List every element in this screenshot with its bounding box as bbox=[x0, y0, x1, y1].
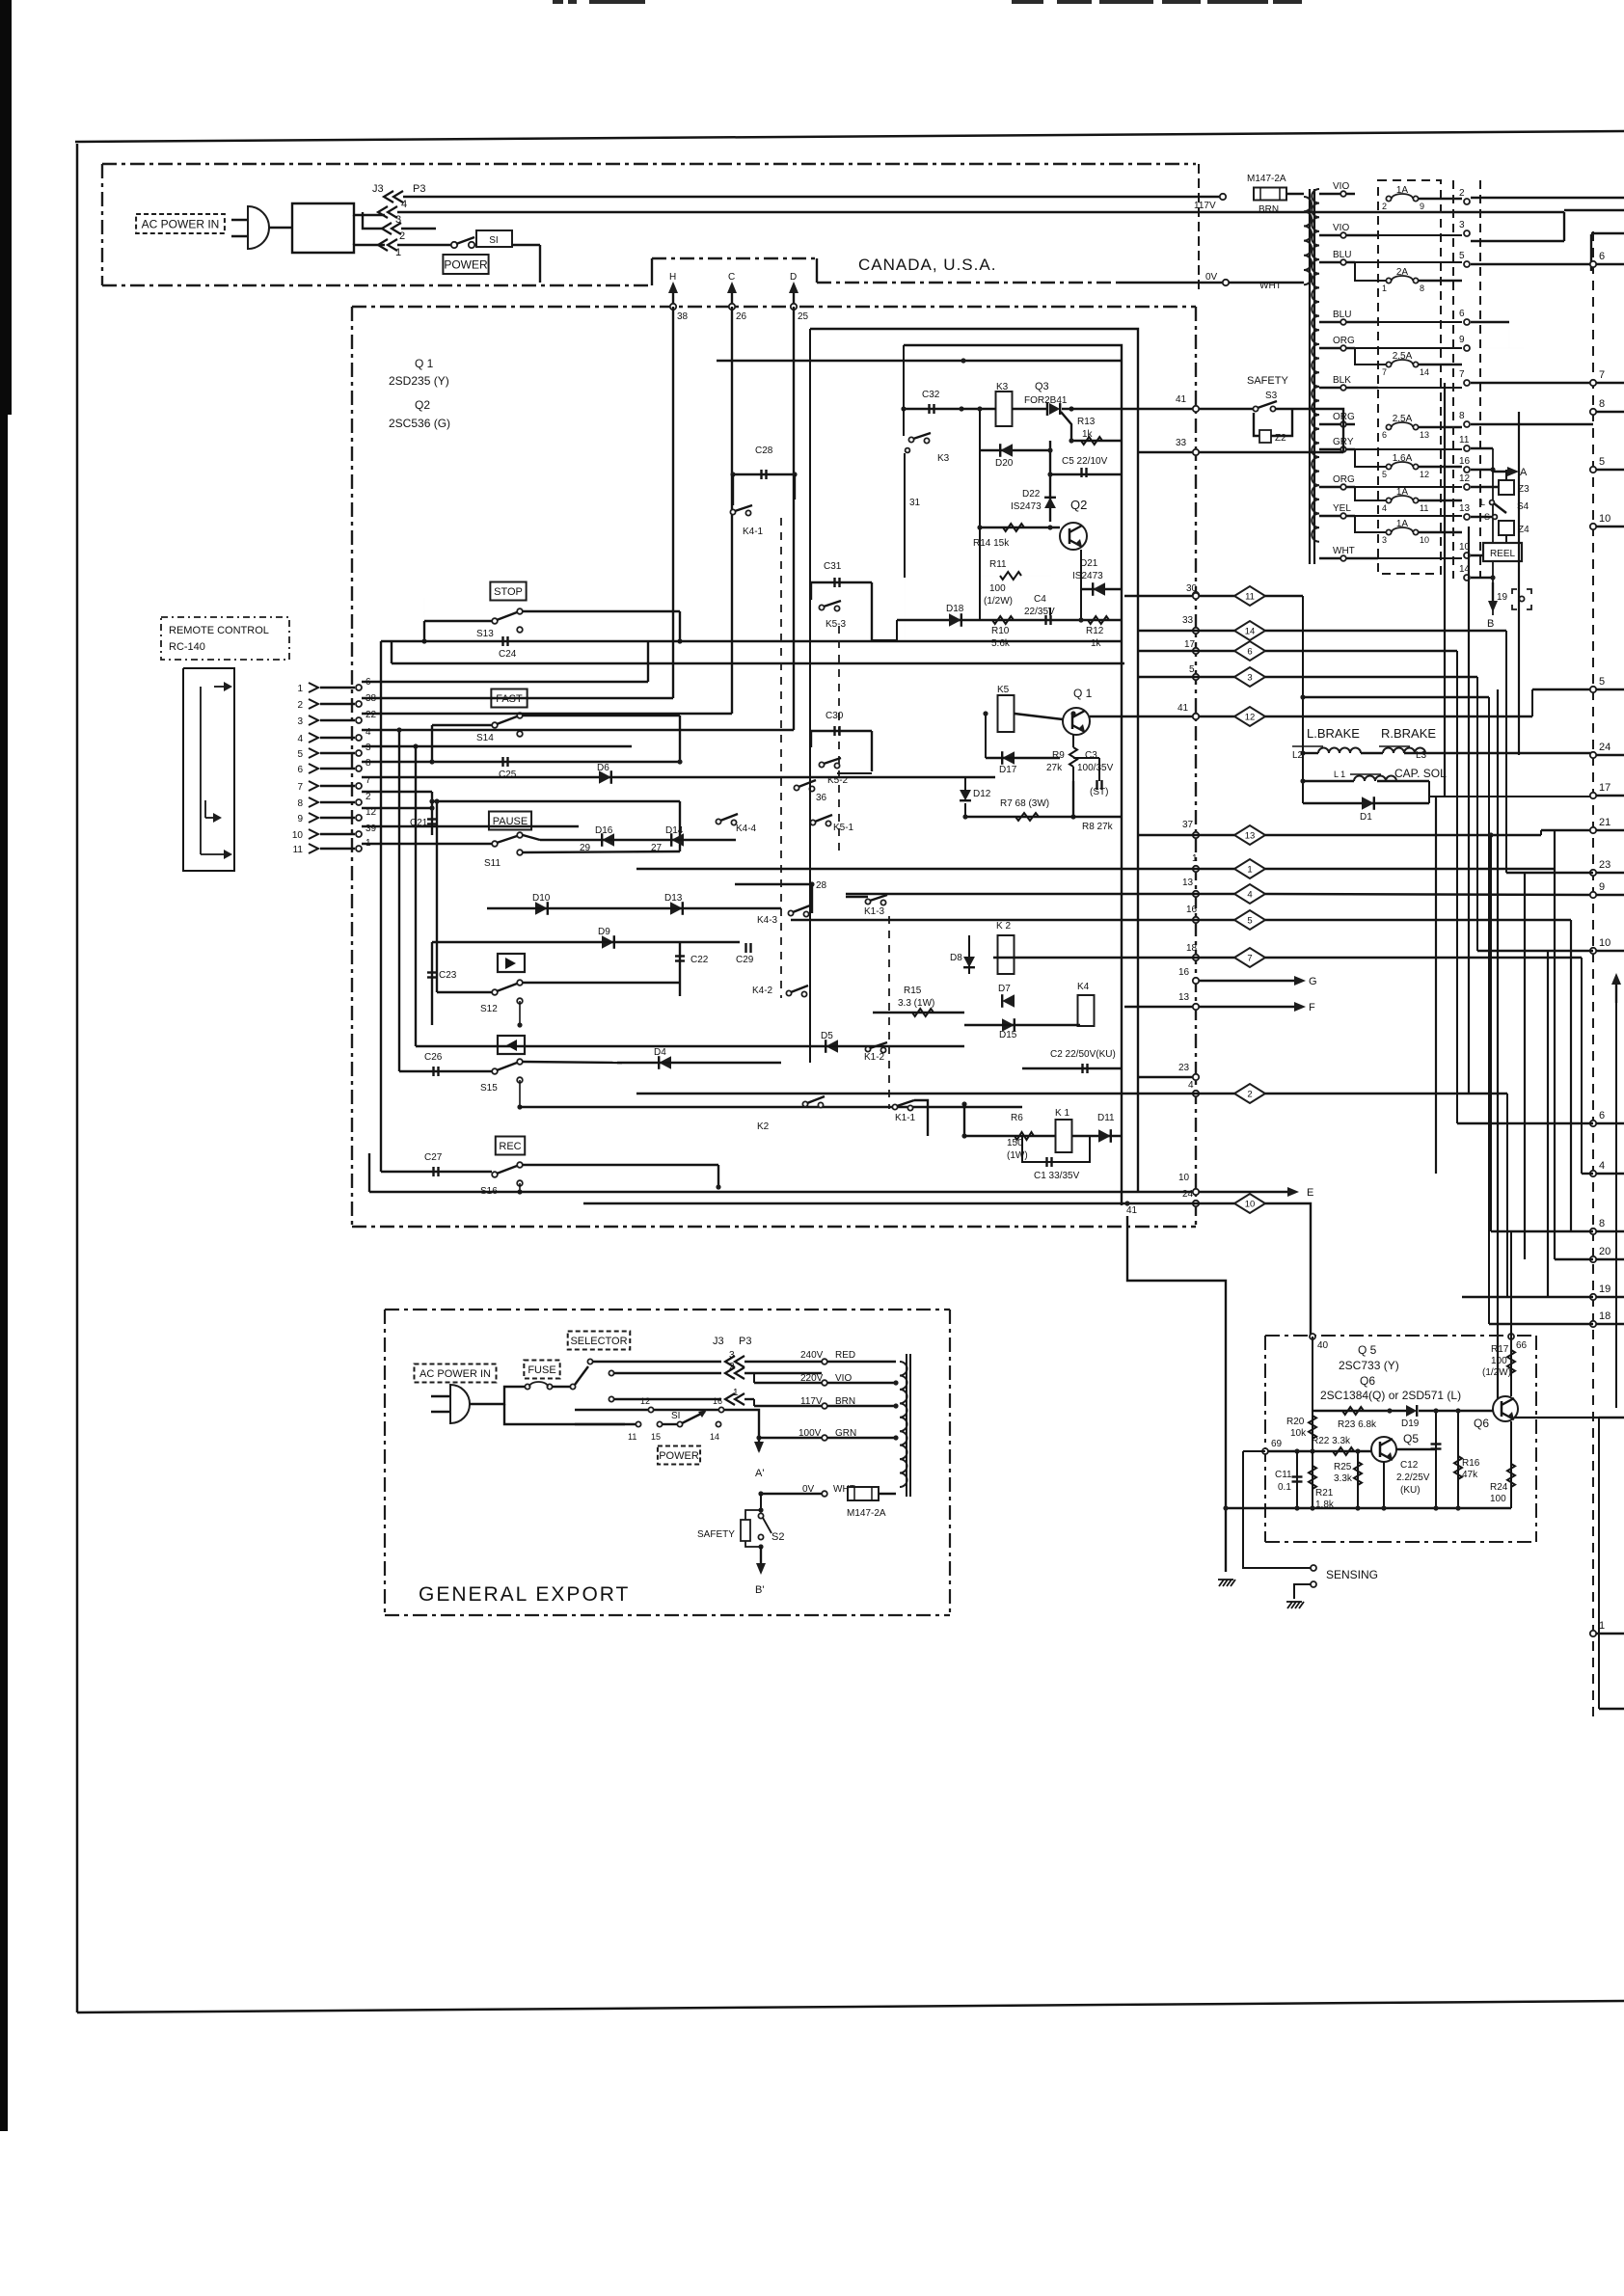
svg-text:117V: 117V bbox=[1194, 201, 1216, 211]
svg-text:3: 3 bbox=[1382, 535, 1387, 545]
svg-text:S12: S12 bbox=[480, 1004, 498, 1014]
svg-text:8: 8 bbox=[1420, 284, 1424, 293]
svg-text:BLU: BLU bbox=[1333, 310, 1351, 320]
svg-text:BRN: BRN bbox=[1259, 204, 1279, 215]
svg-text:R20: R20 bbox=[1286, 1417, 1305, 1427]
svg-text:S13: S13 bbox=[476, 629, 494, 639]
svg-text:H: H bbox=[669, 272, 676, 283]
svg-text:9: 9 bbox=[297, 814, 303, 824]
svg-text:Q 5: Q 5 bbox=[1358, 1343, 1377, 1357]
svg-text:5: 5 bbox=[1382, 470, 1387, 479]
svg-text:10: 10 bbox=[1245, 1200, 1256, 1210]
svg-text:J3: J3 bbox=[372, 183, 384, 195]
svg-text:C4: C4 bbox=[1034, 594, 1046, 605]
svg-text:F: F bbox=[1309, 1002, 1315, 1013]
svg-text:R9: R9 bbox=[1052, 750, 1065, 761]
svg-text:15: 15 bbox=[651, 1432, 661, 1442]
svg-text:Z2: Z2 bbox=[1275, 433, 1286, 444]
svg-text:1A: 1A bbox=[1396, 487, 1409, 498]
svg-text:19: 19 bbox=[1497, 592, 1508, 603]
svg-text:41: 41 bbox=[1126, 1205, 1138, 1216]
svg-text:5: 5 bbox=[1599, 676, 1605, 688]
svg-text:K1-3: K1-3 bbox=[864, 906, 885, 917]
svg-text:K4-2: K4-2 bbox=[752, 986, 773, 996]
svg-text:27k: 27k bbox=[1046, 763, 1063, 773]
svg-text:REEL: REEL bbox=[1490, 549, 1516, 559]
svg-text:Q6: Q6 bbox=[1474, 1417, 1489, 1430]
svg-text:D16: D16 bbox=[595, 825, 613, 836]
svg-text:R14 15k: R14 15k bbox=[973, 538, 1010, 549]
svg-text:C24: C24 bbox=[499, 649, 517, 660]
svg-text:3.3k: 3.3k bbox=[1334, 1473, 1353, 1484]
svg-text:11: 11 bbox=[293, 845, 304, 855]
svg-text:K3: K3 bbox=[937, 453, 950, 464]
svg-text:5: 5 bbox=[1189, 664, 1195, 675]
svg-text:IS2473: IS2473 bbox=[1072, 571, 1103, 581]
svg-text:VIO: VIO bbox=[1333, 223, 1349, 233]
svg-text:L: L bbox=[1480, 498, 1485, 507]
svg-text:13: 13 bbox=[1182, 878, 1194, 888]
svg-text:28: 28 bbox=[816, 880, 827, 891]
svg-text:69: 69 bbox=[1271, 1439, 1283, 1449]
svg-text:13: 13 bbox=[1459, 503, 1471, 514]
svg-text:20: 20 bbox=[1599, 1246, 1610, 1257]
svg-text:0.1: 0.1 bbox=[1278, 1482, 1291, 1493]
svg-text:S11: S11 bbox=[484, 858, 501, 869]
svg-text:C31: C31 bbox=[824, 561, 842, 572]
svg-text:K 2: K 2 bbox=[996, 921, 1011, 932]
svg-text:C29: C29 bbox=[736, 955, 754, 965]
svg-text:1A: 1A bbox=[1396, 185, 1409, 196]
svg-text:C28: C28 bbox=[755, 446, 773, 456]
svg-text:D13: D13 bbox=[664, 893, 683, 904]
svg-text:3: 3 bbox=[365, 743, 371, 753]
svg-text:R24: R24 bbox=[1490, 1482, 1508, 1493]
svg-text:SAFETY: SAFETY bbox=[1247, 375, 1288, 387]
svg-text:7: 7 bbox=[1382, 367, 1387, 377]
svg-text:C3: C3 bbox=[1085, 750, 1097, 761]
svg-text:1: 1 bbox=[1382, 284, 1387, 293]
svg-text:2.5A: 2.5A bbox=[1393, 414, 1413, 424]
svg-text:23: 23 bbox=[1599, 859, 1610, 871]
svg-text:S2: S2 bbox=[771, 1531, 784, 1543]
svg-text:4: 4 bbox=[365, 727, 371, 738]
svg-text:9: 9 bbox=[1599, 881, 1605, 893]
svg-text:33: 33 bbox=[1182, 615, 1194, 626]
svg-text:4: 4 bbox=[1247, 890, 1252, 901]
svg-text:10: 10 bbox=[1599, 513, 1610, 525]
svg-text:D1: D1 bbox=[1360, 812, 1372, 823]
svg-text:R.BRAKE: R.BRAKE bbox=[1381, 726, 1436, 741]
svg-text:41: 41 bbox=[1176, 394, 1187, 405]
svg-text:39: 39 bbox=[365, 824, 377, 834]
svg-text:K5-3: K5-3 bbox=[826, 619, 847, 630]
svg-text:12: 12 bbox=[1420, 470, 1429, 479]
svg-text:D7: D7 bbox=[998, 984, 1011, 994]
svg-text:REMOTE CONTROL: REMOTE CONTROL bbox=[169, 625, 269, 636]
svg-text:POWER: POWER bbox=[659, 1450, 699, 1462]
svg-text:11: 11 bbox=[1459, 435, 1470, 446]
svg-text:1: 1 bbox=[395, 247, 401, 258]
svg-text:7: 7 bbox=[1599, 369, 1605, 381]
svg-text:D12: D12 bbox=[973, 789, 991, 799]
svg-text:C32: C32 bbox=[922, 390, 940, 400]
svg-text:16: 16 bbox=[1186, 905, 1198, 915]
svg-text:D21: D21 bbox=[1080, 558, 1098, 569]
svg-text:14: 14 bbox=[1420, 367, 1429, 377]
svg-text:C11: C11 bbox=[1275, 1470, 1292, 1480]
svg-text:K5-2: K5-2 bbox=[827, 775, 849, 786]
svg-text:100: 100 bbox=[1490, 1494, 1506, 1504]
svg-text:YEL: YEL bbox=[1333, 503, 1351, 514]
svg-text:C26: C26 bbox=[424, 1052, 443, 1063]
svg-text:(1W): (1W) bbox=[1007, 1150, 1028, 1161]
svg-text:R23 6.8k: R23 6.8k bbox=[1338, 1419, 1377, 1430]
svg-text:2SC733 (Y): 2SC733 (Y) bbox=[1339, 1359, 1399, 1372]
svg-text:K1-1: K1-1 bbox=[895, 1113, 916, 1123]
svg-text:13: 13 bbox=[1245, 831, 1256, 842]
svg-text:7: 7 bbox=[1247, 954, 1252, 964]
svg-text:3: 3 bbox=[1459, 220, 1465, 230]
svg-text:D22: D22 bbox=[1022, 489, 1041, 500]
svg-text:D5: D5 bbox=[821, 1031, 833, 1041]
svg-text:SAFETY: SAFETY bbox=[697, 1529, 735, 1540]
svg-text:1.6A: 1.6A bbox=[1393, 453, 1413, 464]
svg-text:16: 16 bbox=[1178, 967, 1190, 978]
svg-text:Q2: Q2 bbox=[415, 398, 430, 412]
svg-text:9: 9 bbox=[1420, 202, 1424, 211]
svg-text:K5-1: K5-1 bbox=[833, 823, 854, 833]
svg-text:12: 12 bbox=[640, 1396, 650, 1406]
svg-text:31: 31 bbox=[909, 498, 921, 508]
svg-text:R10: R10 bbox=[991, 626, 1010, 636]
svg-text:100V: 100V bbox=[798, 1428, 822, 1439]
svg-text:AC POWER IN: AC POWER IN bbox=[420, 1368, 491, 1380]
svg-text:R17: R17 bbox=[1491, 1344, 1509, 1355]
svg-text:10: 10 bbox=[1178, 1173, 1190, 1183]
svg-text:4: 4 bbox=[401, 199, 407, 210]
svg-text:2: 2 bbox=[297, 700, 303, 711]
svg-text:D: D bbox=[790, 272, 797, 283]
svg-text:E: E bbox=[1307, 1187, 1313, 1199]
svg-text:11: 11 bbox=[1245, 592, 1255, 603]
svg-text:M147-2A: M147-2A bbox=[847, 1508, 886, 1519]
svg-text:4: 4 bbox=[1382, 503, 1387, 513]
svg-text:L3: L3 bbox=[1416, 750, 1427, 761]
svg-text:R6: R6 bbox=[1011, 1113, 1023, 1123]
svg-text:L 1: L 1 bbox=[1334, 770, 1345, 779]
svg-text:POWER: POWER bbox=[444, 257, 488, 271]
svg-text:Q 1: Q 1 bbox=[1073, 687, 1093, 700]
svg-text:38: 38 bbox=[677, 311, 689, 322]
svg-text:A: A bbox=[1520, 467, 1528, 478]
svg-text:D18: D18 bbox=[946, 604, 964, 614]
svg-text:D6: D6 bbox=[597, 763, 609, 773]
svg-text:S3: S3 bbox=[1265, 391, 1278, 401]
svg-text:13: 13 bbox=[1178, 992, 1190, 1003]
svg-text:9: 9 bbox=[1459, 335, 1465, 345]
svg-text:RC-140: RC-140 bbox=[169, 641, 205, 653]
svg-text:R12: R12 bbox=[1086, 626, 1104, 636]
svg-text:4: 4 bbox=[1188, 1080, 1194, 1091]
svg-text:26: 26 bbox=[736, 311, 747, 322]
svg-text:R8 27k: R8 27k bbox=[1082, 822, 1114, 832]
svg-text:3: 3 bbox=[297, 716, 303, 727]
svg-text:K4-3: K4-3 bbox=[757, 915, 778, 926]
svg-text:IS2473: IS2473 bbox=[1011, 501, 1042, 512]
svg-text:D17: D17 bbox=[999, 765, 1017, 775]
svg-text:D11: D11 bbox=[1097, 1113, 1115, 1123]
svg-text:D4: D4 bbox=[654, 1047, 666, 1058]
svg-text:REC: REC bbox=[499, 1141, 521, 1152]
svg-text:L.BRAKE: L.BRAKE bbox=[1307, 726, 1360, 741]
svg-text:23: 23 bbox=[1178, 1063, 1190, 1073]
svg-text:21: 21 bbox=[1599, 817, 1610, 828]
svg-text:36: 36 bbox=[816, 793, 827, 803]
svg-text:2SC536 (G): 2SC536 (G) bbox=[389, 417, 450, 430]
svg-text:2: 2 bbox=[399, 230, 405, 242]
svg-text:11: 11 bbox=[628, 1432, 636, 1442]
svg-text:S14: S14 bbox=[476, 733, 494, 743]
svg-text:C1 33/35V: C1 33/35V bbox=[1034, 1171, 1080, 1181]
svg-text:27: 27 bbox=[651, 843, 663, 853]
svg-text:24: 24 bbox=[1182, 1189, 1194, 1200]
svg-text:D14: D14 bbox=[665, 825, 684, 836]
svg-text:B': B' bbox=[755, 1584, 764, 1596]
svg-text:2SC1384(Q) or 2SD571 (L): 2SC1384(Q) or 2SD571 (L) bbox=[1320, 1389, 1461, 1402]
svg-text:Q3: Q3 bbox=[1035, 381, 1049, 392]
svg-text:R16: R16 bbox=[1462, 1458, 1480, 1469]
svg-text:STOP: STOP bbox=[494, 586, 523, 598]
svg-text:K4: K4 bbox=[1077, 982, 1090, 992]
svg-text:2: 2 bbox=[365, 792, 371, 802]
svg-text:100/35V: 100/35V bbox=[1077, 763, 1114, 773]
svg-text:P3: P3 bbox=[413, 183, 425, 195]
svg-text:5: 5 bbox=[297, 749, 303, 760]
svg-text:(1/2W): (1/2W) bbox=[1482, 1367, 1511, 1378]
svg-text:C12: C12 bbox=[1400, 1460, 1419, 1471]
svg-text:2: 2 bbox=[1247, 1090, 1252, 1100]
svg-text:16: 16 bbox=[713, 1396, 722, 1406]
svg-text:41: 41 bbox=[1177, 703, 1189, 714]
svg-text:D9: D9 bbox=[598, 927, 610, 937]
svg-text:12: 12 bbox=[1245, 713, 1256, 723]
svg-text:22: 22 bbox=[365, 710, 377, 720]
svg-text:SELECTOR: SELECTOR bbox=[570, 1336, 627, 1347]
svg-text:24: 24 bbox=[1599, 742, 1610, 753]
svg-text:66: 66 bbox=[1516, 1340, 1528, 1351]
svg-text:L2: L2 bbox=[1292, 750, 1304, 761]
svg-text:G: G bbox=[1309, 976, 1317, 987]
svg-text:D8: D8 bbox=[950, 953, 962, 963]
svg-text:0V: 0V bbox=[802, 1484, 815, 1495]
svg-text:14: 14 bbox=[1245, 627, 1256, 637]
svg-text:6: 6 bbox=[1247, 647, 1252, 658]
svg-text:(ST): (ST) bbox=[1090, 787, 1108, 797]
svg-text:4: 4 bbox=[1599, 1160, 1605, 1172]
svg-text:R22 3.3k: R22 3.3k bbox=[1312, 1436, 1351, 1446]
svg-text:7: 7 bbox=[1459, 369, 1465, 380]
svg-text:2A: 2A bbox=[1396, 267, 1409, 278]
svg-text:6: 6 bbox=[1459, 309, 1465, 319]
svg-text:K1-2: K1-2 bbox=[864, 1052, 885, 1063]
svg-text:C30: C30 bbox=[826, 711, 844, 721]
svg-text:19: 19 bbox=[1599, 1283, 1610, 1295]
svg-text:FUSE: FUSE bbox=[528, 1364, 555, 1376]
svg-text:C27: C27 bbox=[424, 1152, 443, 1163]
svg-text:SI: SI bbox=[489, 235, 498, 246]
svg-text:8: 8 bbox=[1599, 398, 1605, 410]
svg-text:M147-2A: M147-2A bbox=[1247, 174, 1286, 184]
svg-text:J3: J3 bbox=[713, 1336, 724, 1347]
svg-text:C: C bbox=[728, 272, 735, 283]
svg-text:SI: SI bbox=[671, 1411, 680, 1421]
svg-text:C5 22/10V: C5 22/10V bbox=[1062, 456, 1108, 467]
svg-text:Q 1: Q 1 bbox=[415, 357, 434, 370]
svg-text:5.6k: 5.6k bbox=[991, 638, 1011, 649]
svg-text:GENERAL EXPORT: GENERAL EXPORT bbox=[419, 1583, 630, 1606]
svg-text:3.3 (1W): 3.3 (1W) bbox=[898, 998, 934, 1009]
svg-text:6: 6 bbox=[297, 765, 303, 775]
svg-text:SENSING: SENSING bbox=[1326, 1568, 1378, 1581]
svg-text:6: 6 bbox=[1599, 1110, 1605, 1121]
svg-text:D20: D20 bbox=[995, 458, 1014, 469]
svg-text:16: 16 bbox=[1459, 456, 1471, 467]
svg-text:RED: RED bbox=[835, 1350, 855, 1361]
svg-text:R11: R11 bbox=[989, 559, 1007, 570]
svg-text:2: 2 bbox=[1459, 188, 1465, 199]
svg-text:8: 8 bbox=[365, 758, 371, 769]
svg-text:8: 8 bbox=[1599, 1218, 1605, 1229]
svg-text:3: 3 bbox=[729, 1350, 735, 1361]
svg-text:R13: R13 bbox=[1077, 417, 1096, 427]
svg-text:K4-1: K4-1 bbox=[743, 527, 764, 537]
svg-text:1: 1 bbox=[297, 684, 303, 694]
svg-text:6: 6 bbox=[1382, 430, 1387, 440]
svg-text:C25: C25 bbox=[499, 770, 517, 780]
svg-text:R7 68 (3W): R7 68 (3W) bbox=[1000, 798, 1049, 809]
svg-text:29: 29 bbox=[580, 843, 591, 853]
svg-text:1A: 1A bbox=[1396, 519, 1409, 529]
svg-text:33: 33 bbox=[1176, 438, 1187, 448]
svg-text:Q6: Q6 bbox=[1360, 1374, 1375, 1388]
svg-text:17: 17 bbox=[1599, 782, 1610, 794]
svg-text:(1/2W): (1/2W) bbox=[984, 596, 1013, 607]
svg-text:A': A' bbox=[755, 1468, 764, 1479]
svg-text:K5: K5 bbox=[997, 685, 1010, 695]
svg-text:Q2: Q2 bbox=[1070, 498, 1087, 512]
svg-text:10k: 10k bbox=[1290, 1428, 1307, 1439]
svg-text:AC POWER IN: AC POWER IN bbox=[142, 217, 220, 230]
svg-text:18: 18 bbox=[1186, 943, 1198, 954]
svg-text:13: 13 bbox=[1420, 430, 1429, 440]
svg-text:5: 5 bbox=[1599, 456, 1605, 468]
svg-text:(KU): (KU) bbox=[1400, 1485, 1421, 1496]
svg-text:150: 150 bbox=[1007, 1138, 1023, 1148]
svg-text:CANADA, U.S.A.: CANADA, U.S.A. bbox=[858, 256, 996, 274]
svg-text:1: 1 bbox=[733, 1388, 739, 1398]
svg-text:2: 2 bbox=[1382, 202, 1387, 211]
svg-text:S15: S15 bbox=[480, 1083, 498, 1094]
svg-text:10: 10 bbox=[292, 830, 304, 841]
svg-text:0V: 0V bbox=[1205, 272, 1218, 283]
svg-text:P3: P3 bbox=[739, 1336, 751, 1347]
svg-text:240V: 240V bbox=[800, 1350, 824, 1361]
svg-text:R21: R21 bbox=[1315, 1488, 1334, 1499]
svg-text:47k: 47k bbox=[1462, 1470, 1478, 1480]
svg-text:C23: C23 bbox=[439, 970, 457, 981]
svg-text:14: 14 bbox=[710, 1432, 719, 1442]
svg-text:2SD235 (Y): 2SD235 (Y) bbox=[389, 374, 449, 388]
svg-text:5: 5 bbox=[1459, 251, 1465, 261]
svg-text:100: 100 bbox=[1491, 1356, 1507, 1366]
svg-text:2.2/25V: 2.2/25V bbox=[1396, 1472, 1430, 1483]
svg-text:100: 100 bbox=[989, 583, 1006, 594]
svg-text:S: S bbox=[1484, 512, 1490, 522]
svg-text:C2 22/50V(KU): C2 22/50V(KU) bbox=[1050, 1049, 1116, 1060]
svg-text:VIO: VIO bbox=[1333, 181, 1349, 192]
svg-text:3: 3 bbox=[1247, 673, 1252, 684]
svg-text:K 1: K 1 bbox=[1055, 1108, 1069, 1119]
svg-text:6: 6 bbox=[1599, 251, 1605, 262]
svg-text:8: 8 bbox=[1459, 411, 1465, 421]
svg-text:1k: 1k bbox=[1091, 638, 1102, 649]
svg-text:C22: C22 bbox=[690, 955, 709, 965]
svg-text:D19: D19 bbox=[1401, 1418, 1420, 1429]
svg-text:B: B bbox=[1487, 618, 1494, 630]
svg-text:2.5A: 2.5A bbox=[1393, 351, 1413, 362]
svg-text:40: 40 bbox=[1317, 1340, 1329, 1351]
svg-text:K4-4: K4-4 bbox=[736, 824, 757, 834]
svg-text:1: 1 bbox=[1247, 865, 1252, 876]
svg-text:5: 5 bbox=[1247, 916, 1252, 927]
svg-text:8: 8 bbox=[297, 798, 303, 809]
svg-text:CAP. SOL: CAP. SOL bbox=[1394, 767, 1447, 780]
svg-text:12: 12 bbox=[1459, 473, 1471, 484]
svg-text:10: 10 bbox=[1420, 535, 1429, 545]
svg-text:37: 37 bbox=[1182, 820, 1194, 830]
svg-text:R15: R15 bbox=[904, 986, 922, 996]
svg-text:25: 25 bbox=[798, 311, 809, 322]
svg-text:R25: R25 bbox=[1334, 1462, 1352, 1472]
svg-text:Q5: Q5 bbox=[1403, 1432, 1419, 1445]
svg-text:1: 1 bbox=[1192, 853, 1198, 864]
svg-text:K2: K2 bbox=[757, 1121, 770, 1132]
svg-text:BLU: BLU bbox=[1333, 250, 1351, 260]
svg-text:11: 11 bbox=[1420, 503, 1428, 513]
svg-text:18: 18 bbox=[1599, 1310, 1610, 1322]
svg-text:10: 10 bbox=[1599, 937, 1610, 949]
svg-text:2: 2 bbox=[729, 1362, 735, 1372]
svg-text:7: 7 bbox=[297, 782, 303, 793]
svg-text:BLK: BLK bbox=[1333, 375, 1351, 386]
svg-text:4: 4 bbox=[297, 734, 303, 744]
